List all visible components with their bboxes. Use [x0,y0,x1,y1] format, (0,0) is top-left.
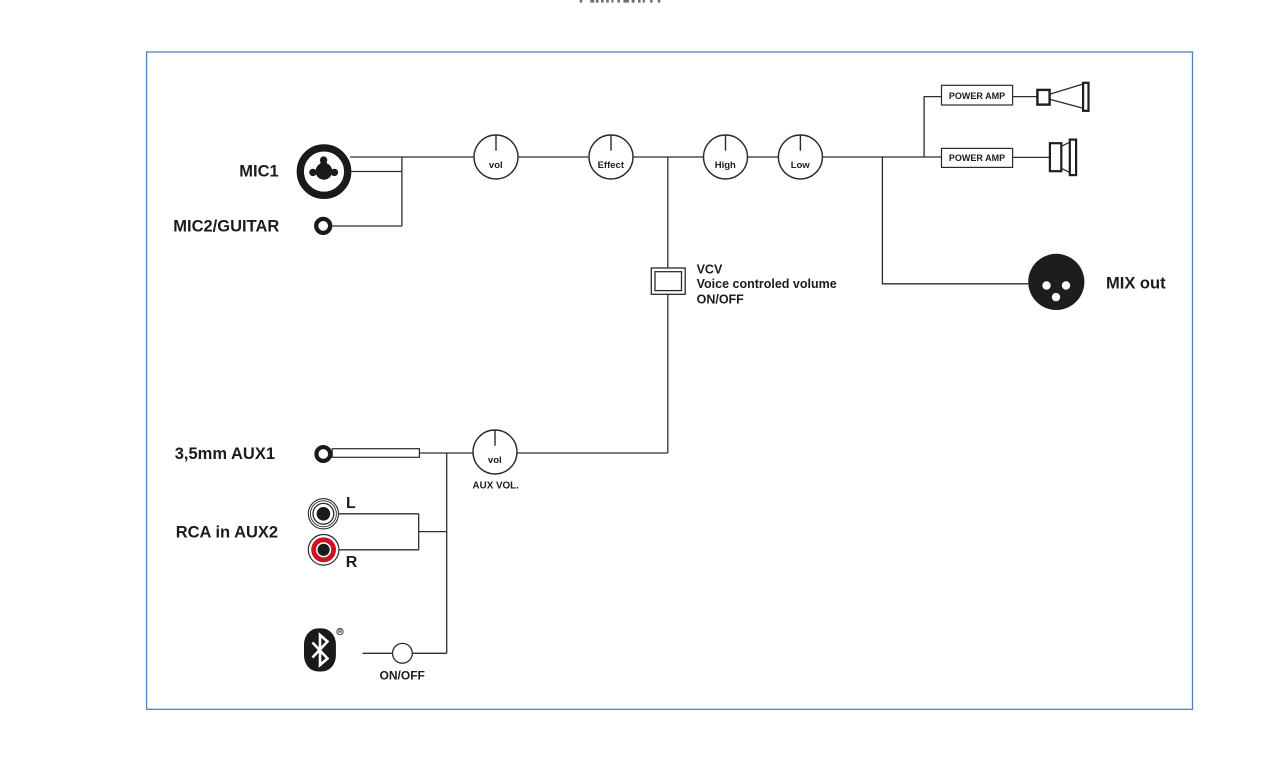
block POWER AMP 2 [942,148,1013,167]
svg-text:3,5mm AUX1: 3,5mm AUX1 [175,445,275,463]
svg-text:Low: Low [791,160,811,171]
wire MIX out drop [882,157,1028,284]
svg-text:vol: vol [489,160,503,171]
wire RCA L [339,513,419,515]
block POWER AMP 1 [942,85,1013,105]
switch bluetooth ON/OFF [393,643,413,663]
wire AUX vol to VCV riser [517,452,668,454]
wire MIC1 to vol knob [350,156,474,158]
wire RCA L/R join vertical [418,514,420,550]
wire AUX1 to AUX vol [419,452,473,454]
svg-text:ON/OFF: ON/OFF [697,292,745,306]
connector MIX out XLR [1028,254,1084,310]
connector RCA R (red) [308,535,339,566]
bluetooth module logo [304,628,343,671]
wire switch to AUX bus [412,652,446,654]
svg-text:R: R [346,554,358,571]
svg-text:MIC2/GUITAR: MIC2/GUITAR [173,217,279,235]
svg-text:MIC1: MIC1 [239,162,278,180]
wire Effect to High [633,156,704,158]
svg-text:High: High [715,160,736,171]
wire POWER AMP 2 to woofer [1013,156,1050,158]
svg-text:Voice controled volume: Voice controled volume [697,277,837,291]
svg-text:ON/OFF: ON/OFF [380,668,425,682]
block VCV switch [651,268,685,294]
wire vol to Effect [518,156,589,158]
wire riser to POWER AMP 1 [924,97,941,157]
connector RCA L (white) [308,499,338,529]
svg-text:POWER AMP: POWER AMP [949,91,1005,101]
title remnant (clipped product name at top) [580,0,661,3]
svg-text:VCV: VCV [697,262,723,276]
wire High to Low [748,156,779,158]
knob Low [778,135,822,179]
speaker woofer [1050,140,1076,176]
svg-text:L: L [346,495,356,512]
connector MIC1 combo XLR jack [300,148,347,195]
connector MIC2/GUITAR jack [316,219,330,233]
wire bluetooth to switch [363,652,393,654]
label VCV block [697,262,837,306]
speaker horn tweeter [1037,83,1088,111]
wire AUX bus vertical [446,453,448,653]
svg-text:AUX VOL.: AUX VOL. [473,480,520,491]
knob vol (mic volume) [474,135,518,179]
wire Effect junction down to VCV [667,157,669,268]
knob AUX vol [473,430,517,474]
wire VCV down to AUX bus [667,294,669,453]
knob High [704,135,748,179]
wire MIC1 second output [351,171,402,173]
svg-text:Effect: Effect [598,160,625,171]
svg-text:POWER AMP: POWER AMP [949,153,1005,163]
wire mic bus vertical [401,157,403,226]
svg-text:RCA in AUX2: RCA in AUX2 [176,524,278,542]
wire MIC2 to bus [332,225,402,227]
wire RCA stub to AUX bus [419,531,447,533]
wire POWER AMP 1 to horn speaker [1013,96,1038,98]
wire RCA R [339,549,419,551]
svg-text:vol: vol [488,455,502,466]
connector 3,5mm AUX1 jack [316,447,419,461]
knob Effect [589,135,633,179]
svg-text:MIX out: MIX out [1106,274,1166,292]
wire Low to power amp row [822,156,941,158]
